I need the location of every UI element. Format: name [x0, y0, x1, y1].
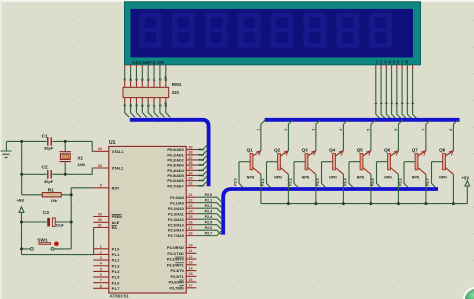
svg-text:Q1: Q1 [247, 147, 254, 152]
wire C3 row [22, 221, 72, 223]
svg-text:P1.5: P1.5 [112, 276, 120, 280]
transistor Q5 [357, 147, 371, 179]
svg-text:P2.0: P2.0 [205, 193, 213, 197]
svg-text:NPN: NPN [329, 176, 337, 180]
switch SW1 [30, 242, 58, 251]
junction Q6 emitter on rail [397, 202, 400, 205]
junction Q7 emitter on rail [424, 202, 427, 205]
wire Q2 base to bus [267, 162, 278, 188]
svg-text:33: 33 [188, 177, 192, 181]
svg-text:27: 27 [188, 226, 192, 230]
svg-text:P1.1: P1.1 [112, 253, 120, 257]
wire Q3 collector to digit bus [316, 120, 320, 151]
wire Q1 base to bus [239, 162, 250, 188]
wire Q5 emitter to rail [370, 174, 372, 203]
svg-text:16: 16 [188, 278, 192, 282]
svg-text:7: 7 [406, 102, 410, 104]
svg-text:NPN: NPN [384, 176, 392, 180]
svg-text:P0.3: P0.3 [199, 163, 205, 167]
wire Q8 base to bus [432, 162, 443, 188]
svg-text:P1.3: P1.3 [112, 264, 120, 268]
svg-text:26: 26 [188, 221, 192, 225]
wire Q4 collector to digit bus [343, 120, 347, 151]
U1 left pin stubs [93, 151, 109, 288]
svg-text:1: 1 [374, 102, 378, 104]
svg-text:C3: C3 [43, 210, 49, 216]
svg-text:6: 6 [401, 102, 405, 104]
svg-text:C1: C1 [42, 133, 48, 139]
svg-text:P1.7: P1.7 [112, 287, 120, 291]
svg-text:8: 8 [100, 284, 102, 288]
capacitor C2 [48, 170, 51, 179]
junction gnd/C2 [20, 173, 23, 176]
transistor Q1 [247, 147, 261, 179]
svg-text:P2.7: P2.7 [205, 231, 213, 235]
wire crystal top lead [64, 141, 66, 151]
capacitor C1 [48, 137, 51, 146]
svg-text:P2.6: P2.6 [205, 226, 213, 230]
svg-text:Q6: Q6 [384, 147, 391, 152]
svg-text:10k: 10k [51, 198, 58, 203]
svg-text:P1.2: P1.2 [112, 259, 120, 263]
transistor Q4 [329, 147, 343, 179]
svg-text:31: 31 [98, 223, 102, 227]
svg-text:30pF: 30pF [44, 146, 54, 151]
wire Q6 base to bus [377, 162, 388, 188]
display digit 7 [336, 13, 359, 48]
svg-text:12: 12 [188, 255, 192, 259]
node +5V vertical [21, 222, 23, 255]
wire Q8 collector to digit bus [453, 120, 457, 151]
svg-text:Q4: Q4 [329, 147, 336, 152]
svg-text:29: 29 [98, 212, 102, 216]
svg-text:G: G [158, 104, 162, 107]
junction Q5 emitter on rail [369, 202, 372, 205]
svg-text:P0.2: P0.2 [199, 158, 205, 162]
svg-text:DP: DP [164, 101, 168, 106]
svg-text:25: 25 [188, 215, 192, 219]
svg-text:P3.3/INT1: P3.3/INT1 [167, 263, 184, 267]
svg-text:ALE: ALE [112, 221, 120, 225]
svg-text:NPN: NPN [247, 176, 255, 180]
svg-text:P2.2/A10: P2.2/A10 [168, 207, 184, 211]
display digit 3 [205, 13, 228, 48]
svg-text:39: 39 [188, 146, 192, 150]
svg-text:+5V: +5V [17, 198, 25, 203]
svg-text:P0.6: P0.6 [199, 179, 205, 183]
svg-text:21: 21 [188, 193, 192, 197]
svg-text:P0.7: P0.7 [199, 184, 205, 188]
svg-text:P1.4: P1.4 [112, 270, 121, 274]
svg-text:P2.4/A12: P2.4/A12 [168, 218, 184, 222]
svg-text:3: 3 [312, 129, 316, 131]
junction C1/X1 top [64, 140, 67, 143]
svg-text:NPN: NPN [302, 176, 310, 180]
svg-text:P1.6: P1.6 [112, 281, 120, 285]
svg-text:RST: RST [112, 186, 120, 190]
net labels on segment wires [123, 75, 168, 80]
svg-text:+5V: +5V [462, 175, 470, 180]
svg-text:P0.7/AD7: P0.7/AD7 [167, 184, 183, 188]
svg-text:18: 18 [98, 164, 102, 168]
wire Q8 emitter to rail [452, 174, 454, 203]
svg-text:4: 4 [390, 102, 394, 104]
svg-text:F: F [152, 105, 156, 107]
svg-text:37: 37 [188, 156, 192, 160]
display digit 1 [139, 13, 162, 48]
svg-text:P0.2/AD2: P0.2/AD2 [167, 159, 183, 163]
svg-text:X1: X1 [77, 156, 83, 162]
svg-text:U1: U1 [109, 140, 116, 146]
svg-text:6: 6 [394, 129, 398, 131]
bus: P2 digit-select to transistor bases [223, 189, 438, 235]
wire Q7 emitter to rail [425, 174, 427, 203]
svg-text:P3.5/T1: P3.5/T1 [171, 275, 184, 279]
overline EA [112, 225, 117, 227]
svg-text:P1.0: P1.0 [112, 247, 120, 251]
svg-text:12345678: 12345678 [376, 59, 410, 64]
junction C3 left [20, 221, 23, 224]
svg-text:36: 36 [188, 161, 192, 165]
wire ground to C1 row [6, 140, 46, 142]
svg-text:7: 7 [422, 129, 426, 131]
svg-text:P0.0: P0.0 [199, 148, 205, 152]
resistor R1 [42, 193, 61, 197]
svg-text:2: 2 [379, 102, 383, 104]
bus: segments RN1 to P0 [130, 120, 209, 186]
svg-text:P3.7/RD: P3.7/RD [169, 286, 184, 290]
svg-text:P0.5/AD5: P0.5/AD5 [167, 174, 183, 178]
wires P2.0-P2.7 to digit-select bus [196, 197, 221, 235]
svg-text:2: 2 [100, 250, 102, 254]
crystal X1 [59, 152, 71, 162]
U1 left pin numbers [98, 147, 103, 288]
svg-text:P0.0/AD0: P0.0/AD0 [167, 148, 183, 152]
junction SW1 left [20, 247, 23, 250]
svg-text:Q2: Q2 [274, 147, 281, 152]
svg-text:ABCDEFG DP: ABCDEFG DP [132, 60, 165, 65]
node gnd vertical [21, 141, 23, 194]
junction C3 right [70, 221, 73, 224]
svg-text:P3.4/T0: P3.4/T0 [171, 269, 184, 273]
svg-text:EA: EA [112, 226, 118, 230]
U1 right pin names [167, 148, 185, 290]
wire Q7 base to bus [404, 162, 415, 188]
overline PSEN [112, 214, 122, 216]
transistor Q7 [412, 147, 426, 179]
wire Q5 collector to digit bus [371, 120, 375, 151]
svg-text:P0.6/AD6: P0.6/AD6 [167, 179, 183, 183]
svg-text:P0.4: P0.4 [199, 168, 205, 172]
svg-text:P2.5/A13: P2.5/A13 [168, 223, 184, 227]
display digit 6 [304, 13, 327, 48]
junction Q4 emitter on rail [342, 202, 345, 205]
wire Q2 collector to digit bus [288, 120, 292, 151]
svg-text:P2.0: P2.0 [233, 178, 237, 185]
U1 left pin names [112, 150, 124, 291]
wire emitter rail to +5V [261, 186, 467, 204]
svg-text:Q5: Q5 [357, 147, 364, 152]
svg-text:P2.7: P2.7 [426, 178, 430, 185]
svg-text:AT89C51: AT89C51 [109, 294, 129, 299]
display digit 8 [369, 13, 392, 48]
display digit pins (red stubs) [376, 65, 413, 70]
svg-text:P2.1: P2.1 [205, 198, 213, 202]
wire Q1 collector to digit bus [261, 120, 265, 151]
display digit 4 [238, 13, 261, 48]
svg-text:C2: C2 [42, 165, 48, 171]
svg-text:30: 30 [98, 218, 102, 222]
wire Q3 emitter to rail [315, 174, 317, 203]
svg-text:XTAL1: XTAL1 [112, 150, 124, 154]
ground [0, 141, 11, 157]
svg-text:XTAL2: XTAL2 [112, 167, 124, 171]
junction R1/RST [70, 193, 73, 196]
svg-text:NPN: NPN [412, 176, 420, 180]
svg-text:P0.1: P0.1 [199, 153, 205, 157]
wire C1 to crystal node [52, 141, 93, 151]
svg-text:5: 5 [100, 267, 102, 271]
svg-text:15: 15 [188, 272, 192, 276]
svg-text:P2.6: P2.6 [398, 178, 402, 185]
svg-text:4: 4 [339, 129, 343, 131]
junction Q8 emitter on rail [452, 202, 455, 205]
wires P0.0-P0.7 to segment bus [196, 145, 206, 185]
svg-text:12M: 12M [77, 162, 85, 167]
svg-text:P2.2: P2.2 [288, 178, 292, 185]
wires display segments to RN1 [125, 68, 166, 81]
svg-text:3: 3 [385, 102, 389, 104]
svg-text:F: F [152, 79, 156, 81]
power +5V left arrow [19, 207, 24, 222]
display screen [131, 9, 414, 58]
svg-text:10uF: 10uF [56, 224, 64, 228]
svg-text:DP: DP [164, 75, 168, 80]
svg-text:P2.3: P2.3 [205, 209, 213, 213]
wire Q4 emitter to rail [342, 174, 344, 203]
svg-text:P2.7/A15: P2.7/A15 [168, 234, 184, 238]
svg-text:8: 8 [449, 129, 453, 131]
svg-text:35: 35 [188, 166, 192, 170]
svg-text:G: G [158, 78, 162, 81]
transistor Q8 [439, 147, 453, 179]
bus: display digits to transistors [265, 118, 460, 122]
transistor Q3 [302, 147, 316, 179]
svg-text:P2.3/A11: P2.3/A11 [168, 212, 184, 216]
svg-text:PSEN: PSEN [112, 215, 123, 219]
wire RST net [71, 188, 93, 195]
svg-text:NPN: NPN [274, 176, 282, 180]
svg-text:P0.5: P0.5 [199, 173, 205, 177]
svg-text:9: 9 [100, 184, 102, 188]
transistor Q2 [274, 147, 288, 179]
svg-text:P2.6/A14: P2.6/A14 [168, 229, 185, 233]
RN1 bottom pins [125, 98, 166, 103]
junction C2/X1 bottom [64, 173, 67, 176]
svg-text:P2.2: P2.2 [205, 204, 213, 208]
wire R1 row [22, 194, 71, 196]
svg-text:1: 1 [257, 129, 261, 131]
wires RN1 to segment bus [125, 103, 171, 117]
svg-text:Q8: Q8 [439, 147, 446, 152]
overlines INT0 INT1 WR RD [175, 257, 184, 286]
wire SW1 row [22, 248, 72, 250]
svg-text:38: 38 [188, 151, 192, 155]
svg-text:RN1: RN1 [172, 82, 182, 88]
wire Q1 emitter to rail [260, 174, 262, 203]
svg-text:23: 23 [188, 204, 192, 208]
display digit 2 [172, 13, 195, 48]
junction gnd/C1 [20, 140, 23, 143]
svg-text:P2.5: P2.5 [371, 178, 375, 185]
svg-text:6: 6 [100, 273, 102, 277]
svg-text:3: 3 [100, 256, 102, 260]
svg-text:P0.1/AD1: P0.1/AD1 [167, 153, 183, 157]
svg-text:P3.1/TXD: P3.1/TXD [167, 252, 184, 256]
display digit 5 [271, 13, 294, 48]
svg-text:NPN: NPN [439, 176, 447, 180]
U1 right pin stubs P0 P2 P3 [186, 150, 196, 288]
svg-text:P2.3: P2.3 [316, 178, 320, 185]
svg-text:8: 8 [411, 102, 415, 104]
decorative green ball icon [463, 287, 474, 299]
svg-text:11: 11 [188, 249, 192, 253]
wire crystal bottom lead [64, 162, 66, 175]
svg-text:7: 7 [100, 279, 102, 283]
svg-text:P0.4/AD4: P0.4/AD4 [167, 169, 184, 173]
svg-text:30pF: 30pF [44, 179, 54, 184]
svg-text:5: 5 [367, 129, 371, 131]
svg-text:Q3: Q3 [302, 147, 309, 152]
svg-text:P3.6/WR: P3.6/WR [169, 281, 184, 285]
svg-text:P2.5: P2.5 [205, 220, 213, 224]
svg-text:P2.0/A8: P2.0/A8 [170, 196, 184, 200]
wire Q7 collector to digit bus [426, 120, 430, 151]
display segment pins (red stubs) [125, 65, 166, 68]
svg-text:2: 2 [284, 129, 288, 131]
transistor Q6 [384, 147, 398, 179]
wire Q6 emitter to rail [397, 174, 399, 203]
wire EA net [22, 228, 96, 255]
junction Q3 emitter on rail [314, 202, 317, 205]
svg-text:220: 220 [172, 90, 180, 95]
svg-text:P2.1/A9: P2.1/A9 [170, 201, 184, 205]
svg-text:5: 5 [395, 102, 399, 104]
svg-text:32: 32 [188, 182, 192, 186]
resistor network RN1 [123, 87, 169, 97]
node RST vertical [70, 195, 72, 249]
svg-text:P2.4: P2.4 [205, 215, 214, 219]
wire Q3 base to bus [294, 162, 305, 188]
svg-text:28: 28 [188, 232, 192, 236]
wires display digits to digit bus [376, 69, 417, 118]
svg-text:10: 10 [188, 244, 192, 248]
svg-text:P0.3/AD3: P0.3/AD3 [167, 164, 183, 168]
7-segment display module frame [125, 2, 421, 65]
wire Q5 base to bus [349, 162, 360, 188]
junction Q2 emitter on rail [287, 202, 290, 205]
net labels on P0 wires [199, 148, 205, 188]
svg-text:22: 22 [188, 199, 192, 203]
svg-text:Q7: Q7 [412, 147, 419, 152]
wire Q2 emitter to rail [287, 174, 289, 203]
svg-text:13: 13 [188, 261, 192, 265]
wire Q6 collector to digit bus [398, 120, 402, 151]
net labels P2.0-P2.7 on wires [205, 193, 214, 235]
net labels on RN1 bottom wires [123, 101, 168, 106]
power +5V right arrow [465, 181, 470, 186]
svg-text:P3.0/RXD: P3.0/RXD [167, 246, 184, 250]
svg-text:1: 1 [100, 245, 102, 249]
capacitor C3 [47, 218, 55, 227]
svg-text:P2.4: P2.4 [343, 178, 347, 185]
svg-text:R1: R1 [48, 187, 54, 193]
svg-text:19: 19 [98, 147, 102, 151]
svg-text:P2.1: P2.1 [261, 178, 265, 185]
svg-text:P3.2/INT0: P3.2/INT0 [167, 258, 184, 262]
op-amp/MCU U1 body [109, 146, 186, 293]
net labels on digit wires [374, 102, 415, 104]
svg-text:NPN: NPN [357, 176, 365, 180]
wire C2 row [22, 168, 94, 174]
resistor network RN1 top pins [125, 81, 166, 87]
svg-text:17: 17 [188, 284, 192, 288]
U1 right pin numbers [188, 146, 193, 288]
wire Q4 base to bus [322, 162, 333, 188]
